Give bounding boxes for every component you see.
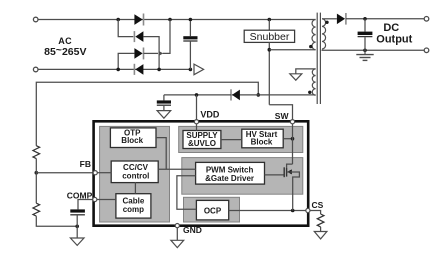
node: secondary polarity dot xyxy=(325,21,328,24)
wire: FB line to pin xyxy=(36,172,93,174)
svg-text:SW: SW xyxy=(275,111,290,121)
wire: GND pin drop xyxy=(176,228,178,241)
ground: vdd cap xyxy=(157,111,171,119)
wire: sense resistor to ground xyxy=(320,227,322,232)
ground: secondary earth xyxy=(356,50,373,60)
wire: HV Start to SW net xyxy=(283,138,292,140)
svg-text:COMP: COMP xyxy=(67,190,93,200)
node: primary polarity dot xyxy=(309,45,312,48)
pin CS xyxy=(306,208,310,212)
capacitor C1 bulk xyxy=(183,21,197,69)
HV Start Block box xyxy=(242,129,283,148)
DC output terminal minus xyxy=(424,48,429,53)
wire: primary bottom xyxy=(269,49,315,51)
node: comp ground junction xyxy=(75,225,79,229)
pin COMP xyxy=(93,197,97,201)
wire: COMP pin inside xyxy=(97,199,116,201)
wire: divider mid segment xyxy=(35,159,37,204)
capacitor C4 output xyxy=(358,19,373,51)
svg-text:OCP: OCP xyxy=(204,206,222,215)
ground: aux winding (open triangle) xyxy=(290,74,302,80)
wire: FB sense line from divider to aux node xyxy=(36,82,258,145)
wire: gate from PWM box xyxy=(265,174,285,176)
node: bottom rail junction x190 xyxy=(189,68,193,72)
transformer aux winding xyxy=(312,69,315,95)
node: aux polarity dot xyxy=(308,91,311,94)
resistor R3 current sense xyxy=(317,214,324,227)
wire: bottom AC rail xyxy=(38,68,190,70)
wire: D3 right with jump marker, up to top rail xyxy=(144,52,159,54)
Cable comp box xyxy=(116,194,151,218)
resistor R2 xyxy=(33,203,40,216)
pin SW xyxy=(290,120,294,124)
diode D6 vdd xyxy=(231,89,240,100)
wire: CC/CV to PWM xyxy=(158,168,195,170)
wire: FB pin inside xyxy=(97,172,111,174)
gray panel ocp xyxy=(184,197,240,222)
node: HV/SW junction xyxy=(291,137,295,141)
node: vdd pin junction xyxy=(195,93,199,97)
node: top rail junction x170 xyxy=(168,18,172,22)
AC input terminal top xyxy=(33,17,38,22)
wire: output minus rail xyxy=(322,49,425,51)
wire: D2 right to vertical x159 down to bottom rail xyxy=(143,37,159,70)
svg-text:GND: GND xyxy=(183,225,202,235)
transformer secondary winding xyxy=(322,19,326,49)
svg-text:control: control xyxy=(122,171,149,180)
svg-text:Block: Block xyxy=(121,136,143,145)
capacitor C3 vdd xyxy=(157,95,171,111)
wire: top AC rail xyxy=(38,19,315,21)
diode D2 bridge second row xyxy=(134,31,143,42)
node: top rail junction x269 (snubber) xyxy=(268,18,272,22)
svg-text:VDD: VDD xyxy=(200,110,220,120)
transistor Q1 power mosfet xyxy=(284,164,299,210)
node: primary bottom junction xyxy=(268,48,272,52)
diode D1 bridge top xyxy=(134,14,143,26)
gray panel left xyxy=(100,126,170,222)
wire: aux top to ground xyxy=(296,69,316,74)
svg-text:Snubber: Snubber xyxy=(250,31,290,43)
svg-text:FB: FB xyxy=(80,159,91,169)
PWM Switch &Gate Driver box xyxy=(196,162,265,184)
wire: SUPPLY to HV Start xyxy=(221,139,242,141)
wire: aux bottom / VDD line xyxy=(231,94,316,96)
gray panel middle right xyxy=(182,158,303,195)
diode D3 bridge third row xyxy=(134,48,143,60)
CC/CV control box xyxy=(111,161,158,183)
primary ground arrow (open right triangle) xyxy=(194,64,204,75)
IC block outline xyxy=(94,121,309,225)
wire: snubber to SW node xyxy=(268,42,270,104)
OTP Block box xyxy=(110,128,156,148)
OCP box xyxy=(196,200,228,220)
snubber box xyxy=(244,20,294,44)
wire: OCP to CS pin xyxy=(229,210,307,212)
pin FB xyxy=(93,171,97,175)
node: output cap junction top xyxy=(363,17,367,21)
gray panel top right xyxy=(179,126,303,152)
svg-text:CS: CS xyxy=(312,200,324,210)
pin GND xyxy=(175,224,179,228)
node: FB divider junction xyxy=(35,171,39,175)
node: bottom rail junction x118 xyxy=(116,68,120,72)
ground: comp xyxy=(70,226,84,245)
wire: CC/CV to Cable comp xyxy=(134,182,136,194)
ground: GND pin xyxy=(171,240,184,247)
transformer T1 core xyxy=(317,13,320,104)
wire: SW vertical inside block xyxy=(292,124,294,164)
wire: VDD pin to SUPPLY xyxy=(196,124,198,131)
diode D4 bridge bottom xyxy=(134,64,143,75)
diode D5 output xyxy=(322,13,346,25)
pin VDD xyxy=(194,120,198,124)
svg-text:85~265V: 85~265V xyxy=(44,44,86,58)
node: output cap junction bottom xyxy=(363,49,367,53)
wire: vdd line left of diode xyxy=(164,94,231,96)
transformer primary winding xyxy=(312,20,316,50)
wire: CS pin to sense resistor xyxy=(310,211,321,215)
wire: D3 row left drop to bottom rail xyxy=(118,53,134,69)
wire: COMP pin to cap xyxy=(78,200,93,210)
wire: SW route into block xyxy=(269,105,292,120)
DC output terminal plus xyxy=(424,17,429,22)
resistor R1 xyxy=(33,146,40,159)
wire: OTP to pwm net xyxy=(156,138,166,170)
node: bottom rail junction x159 xyxy=(157,68,161,72)
wire: R2 bottom to ground node xyxy=(36,216,77,226)
svg-text:&UVLO: &UVLO xyxy=(188,139,216,148)
capacitor C2 comp xyxy=(70,209,85,226)
node: top rail junction x190 (bulk cap) xyxy=(189,18,193,22)
svg-text:&Gate Driver: &Gate Driver xyxy=(205,174,254,183)
ground: current sense xyxy=(314,232,327,239)
node: aux/divider junction xyxy=(257,93,261,97)
svg-text:comp: comp xyxy=(123,205,144,214)
SUPPLY &UVLO box xyxy=(183,131,221,149)
svg-text:Output: Output xyxy=(376,33,412,45)
node: top rail junction x118 xyxy=(116,18,120,22)
wire: output plus rail xyxy=(346,18,424,20)
node: mosfet source / cs junction xyxy=(291,209,295,213)
wire: D2 row left drop xyxy=(118,20,133,37)
svg-text:Block: Block xyxy=(251,138,273,147)
wire: PWM to OCP xyxy=(177,176,197,210)
AC input terminal bottom xyxy=(33,67,38,72)
wire: vdd pin drop xyxy=(196,95,198,120)
